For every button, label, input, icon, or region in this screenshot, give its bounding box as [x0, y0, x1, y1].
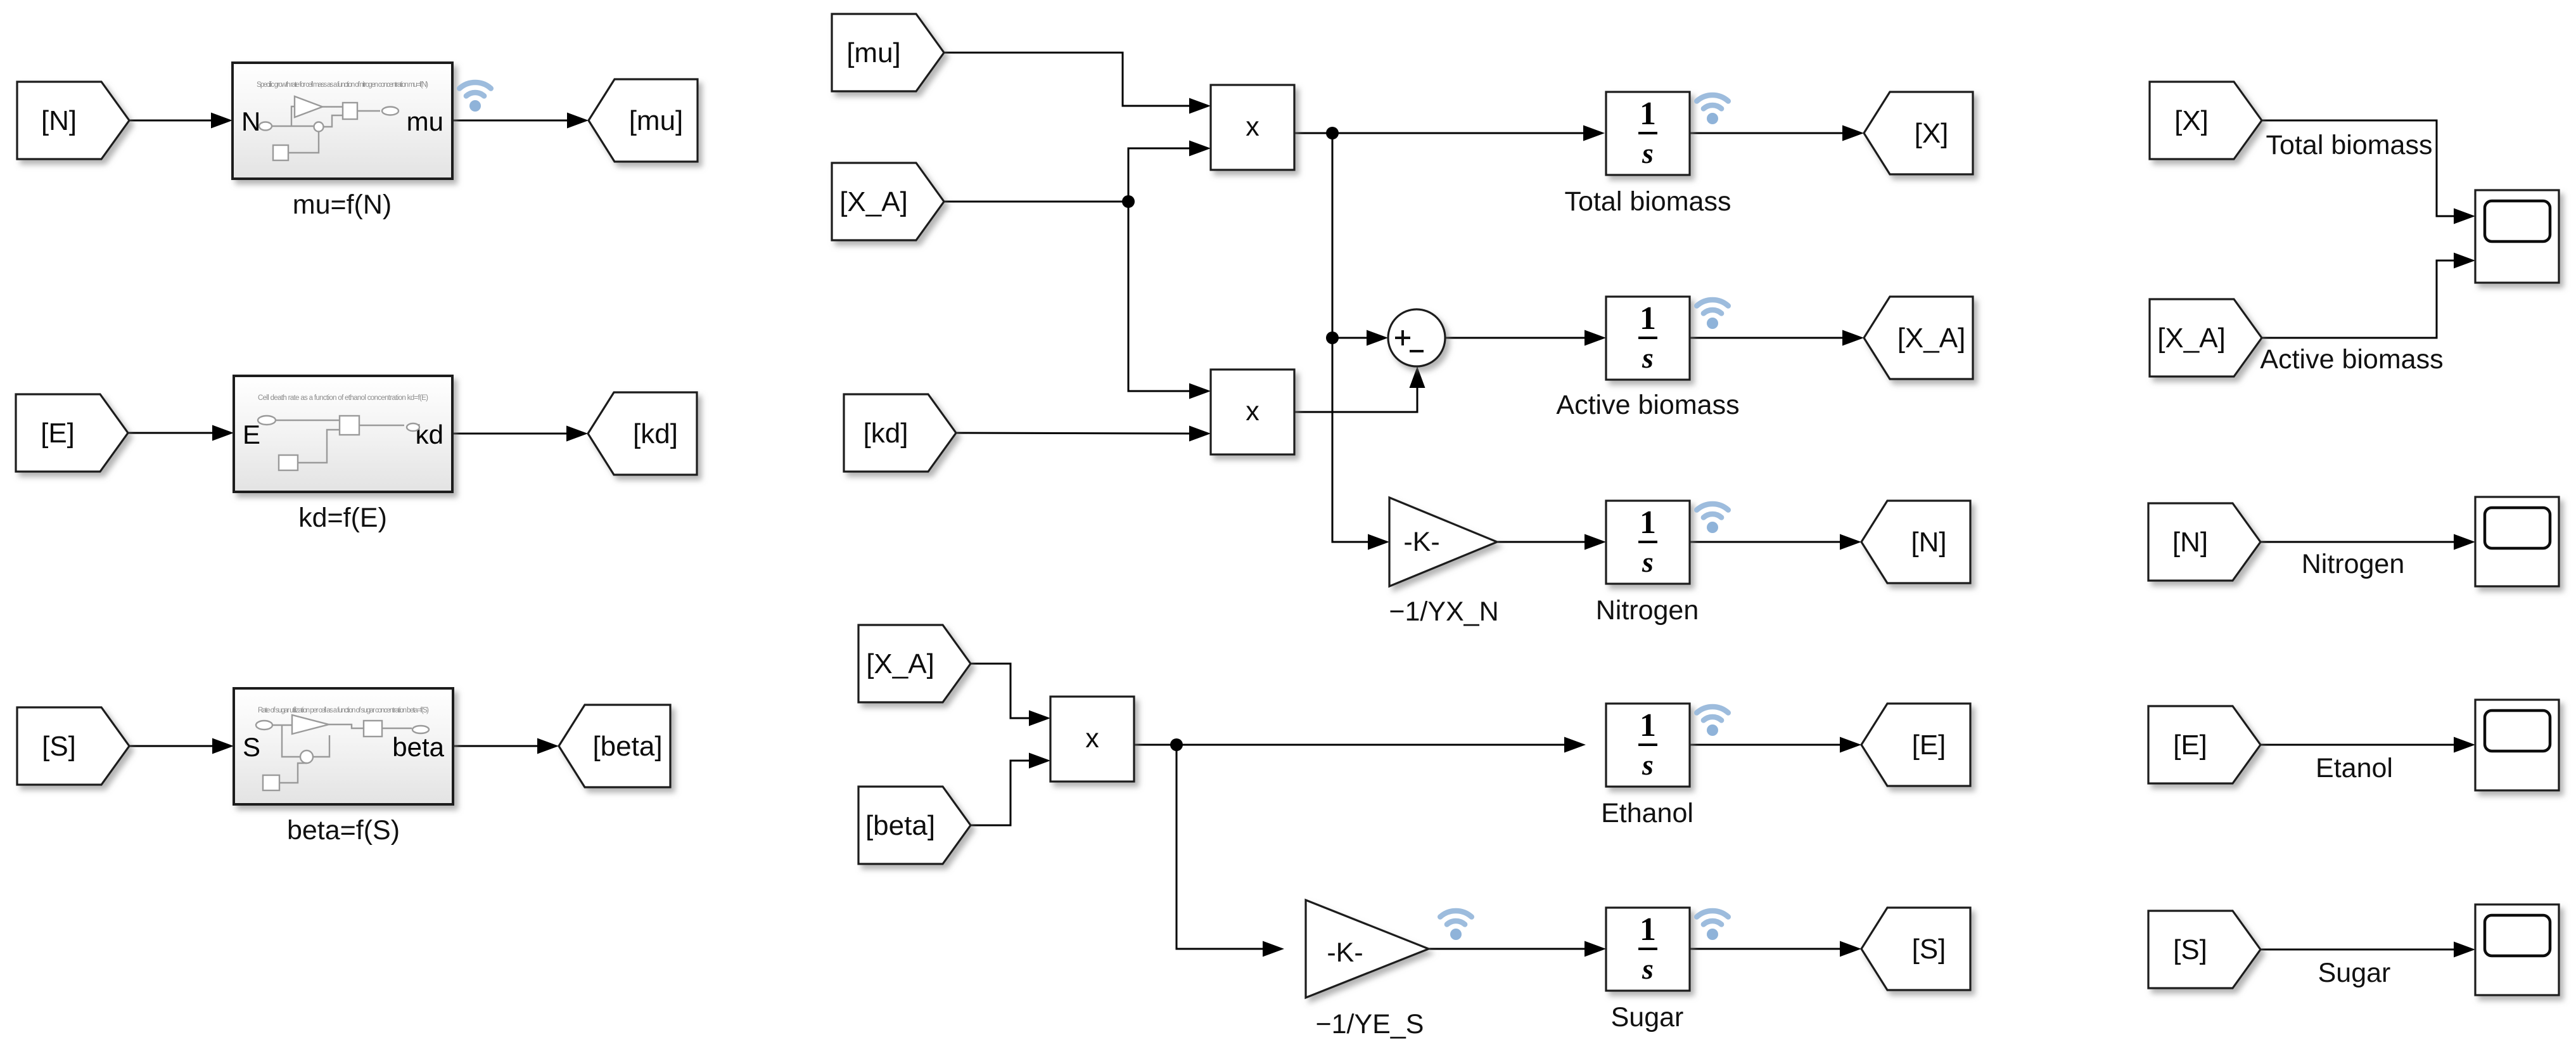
svg-text:N: N [241, 106, 260, 136]
svg-text:Active biomass: Active biomass [2260, 344, 2443, 375]
svg-text:1: 1 [1640, 505, 1656, 541]
svg-text:s: s [1642, 749, 1654, 781]
svg-text:mu=f(N): mu=f(N) [293, 190, 392, 220]
svg-text:Active biomass: Active biomass [1556, 390, 1739, 420]
svg-text:[mu]: [mu] [629, 105, 684, 136]
svg-text:[S]: [S] [42, 731, 76, 762]
svg-text:s: s [1642, 342, 1654, 374]
svg-text:[X_A]: [X_A] [839, 186, 908, 217]
svg-text:[X_A]: [X_A] [2157, 323, 2226, 354]
svg-text:s: s [1642, 953, 1654, 985]
svg-text:S: S [243, 732, 260, 762]
svg-text:[N]: [N] [41, 105, 77, 136]
svg-text:[N]: [N] [2172, 527, 2208, 558]
svg-text:Ethanol: Ethanol [1601, 798, 1693, 828]
svg-text:[X_A]: [X_A] [866, 648, 934, 679]
svg-text:Cell death rate as a function: Cell death rate as a function of ethanol… [258, 394, 428, 402]
svg-text:[X_A]: [X_A] [1897, 323, 1966, 354]
svg-text:[N]: [N] [1911, 527, 1946, 558]
svg-text:[E]: [E] [41, 418, 75, 449]
svg-text:beta=f(S): beta=f(S) [287, 815, 400, 846]
svg-text:[S]: [S] [1912, 934, 1946, 965]
svg-text:x: x [1246, 112, 1259, 142]
svg-text:[X]: [X] [1915, 118, 1949, 149]
svg-text:Sugar: Sugar [1611, 1002, 1684, 1033]
svg-text:beta: beta [392, 732, 444, 762]
svg-text:[X]: [X] [2174, 105, 2209, 136]
svg-text:kd: kd [416, 420, 443, 449]
svg-text:[beta]: [beta] [592, 731, 662, 762]
svg-text:x: x [1085, 723, 1099, 754]
svg-text:[beta]: [beta] [865, 810, 935, 841]
svg-text:Specific growth rate for cell: Specific growth rate for cell mass as a … [257, 81, 428, 89]
svg-text:Sugar: Sugar [2318, 958, 2391, 988]
svg-text:−1/YX_N: −1/YX_N [1389, 596, 1498, 627]
svg-text:1: 1 [1640, 911, 1656, 948]
svg-text:1: 1 [1640, 300, 1656, 337]
svg-text:Etanol: Etanol [2316, 753, 2393, 783]
svg-text:mu: mu [407, 106, 443, 136]
svg-text:[S]: [S] [2173, 934, 2207, 965]
svg-text:Total biomass: Total biomass [2266, 130, 2433, 160]
svg-text:s: s [1642, 546, 1654, 578]
svg-text:Nitrogen: Nitrogen [1596, 595, 1699, 626]
svg-text:Nitrogen: Nitrogen [2302, 549, 2405, 579]
svg-text:1: 1 [1640, 707, 1656, 743]
svg-text:-K-: -K- [1403, 527, 1439, 557]
svg-text:s: s [1642, 137, 1654, 169]
svg-text:[kd]: [kd] [633, 418, 678, 449]
svg-text:E: E [243, 420, 260, 449]
svg-text:[E]: [E] [2173, 730, 2207, 761]
svg-text:Rate of sugar utilization per: Rate of sugar utilization per cell as a … [258, 707, 429, 714]
svg-text:-K-: -K- [1327, 937, 1363, 968]
svg-text:x: x [1246, 396, 1259, 427]
svg-text:[kd]: [kd] [864, 418, 909, 449]
svg-text:[mu]: [mu] [846, 37, 901, 68]
svg-text:1: 1 [1640, 96, 1656, 132]
svg-text:[E]: [E] [1912, 730, 1946, 761]
svg-text:−1/YE_S: −1/YE_S [1316, 1009, 1424, 1039]
svg-text:Total biomass: Total biomass [1565, 186, 1731, 217]
svg-text:kd=f(E): kd=f(E) [298, 503, 387, 533]
